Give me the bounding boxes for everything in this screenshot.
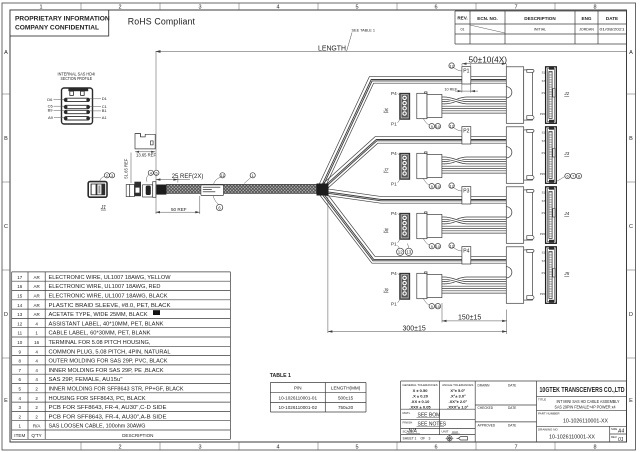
svg-text:1: 1 [415, 437, 417, 441]
svg-text:2: 2 [118, 5, 121, 11]
svg-text:P4: P4 [391, 211, 397, 216]
svg-text:.X°± 3.0°: .X°± 3.0° [450, 393, 466, 398]
svg-text:HOUSING FOR SFF8643, PC, BLACK: HOUSING FOR SFF8643, PC, BLACK [49, 396, 147, 402]
cable side view: connector mating plate [126, 185, 130, 197]
svg-text:01: 01 [461, 28, 465, 32]
svg-text:10-1026110001-02: 10-1026110001-02 [279, 405, 318, 410]
svg-text:A1: A1 [102, 115, 108, 120]
cable label on braid [201, 185, 224, 196]
svg-text:B: B [629, 136, 633, 142]
svg-text:DATE: DATE [606, 16, 618, 21]
svg-text:PLASTIC BRAID SLEEVE, #8.0, PE: PLASTIC BRAID SLEEVE, #8.0, PET, BLACK [49, 303, 172, 309]
svg-text:6: 6 [434, 445, 437, 451]
svg-text:10GTEK TRANSCEIVERS CO.,LTD: 10GTEK TRANSCEIVERS CO.,LTD [540, 385, 625, 394]
svg-text:5: 5 [355, 5, 358, 11]
svg-text:J3: J3 [563, 151, 569, 156]
svg-text:J8: J8 [383, 227, 389, 232]
svg-text:A: A [4, 50, 8, 56]
svg-text:PCB FOR SFF8643, FR-4, AU30",A: PCB FOR SFF8643, FR-4, AU30",A-B SIDE [49, 414, 168, 420]
strain relief strip [153, 182, 156, 198]
svg-text:3: 3 [198, 5, 201, 11]
svg-text:16: 16 [17, 284, 23, 289]
svg-text:D6: D6 [47, 97, 53, 102]
callout 11 cable label [214, 173, 226, 185]
svg-text:7: 7 [514, 445, 517, 451]
svg-text:PART NUMBER: PART NUMBER [538, 412, 560, 416]
svg-text:AR: AR [33, 312, 40, 317]
svg-text:ENG: ENG [582, 16, 592, 21]
drawn/checked/approved [478, 384, 517, 428]
connector body [130, 185, 135, 197]
svg-text:PROPRIETARY INFORMATION: PROPRIETARY INFORMATION [15, 16, 110, 23]
svg-text:150±15: 150±15 [458, 315, 481, 322]
svg-text:SAS 29P, FEMALE, AU15u": SAS 29P, FEMALE, AU15u" [49, 377, 123, 383]
svg-text:11: 11 [17, 331, 22, 336]
150±15 dimension [442, 303, 507, 334]
svg-text:10 REF: 10 REF [444, 87, 458, 91]
wire ribbon branch 3 [323, 188, 507, 196]
connector latch profile view [135, 134, 155, 149]
branch 4 assembly [398, 243, 557, 309]
svg-text:P4: P4 [391, 151, 397, 156]
svg-text:DRAWN: DRAWN [478, 384, 491, 388]
metal shell block [134, 182, 141, 197]
25 REF(2X) dimension [156, 174, 203, 183]
wire ribbon branch 4 [325, 191, 507, 257]
svg-text:B: B [4, 136, 8, 142]
svg-text:J1: J1 [100, 205, 107, 211]
zone numbers top [39, 5, 596, 11]
svg-text:LENGTH(MM): LENGTH(MM) [331, 386, 361, 391]
svg-text:.XXX°± 1.0°: .XXX°± 1.0° [447, 405, 469, 410]
svg-text:.XX°± 2.0°: .XX°± 2.0° [449, 399, 468, 404]
acetate tape over split (covers ribbon starts) [317, 184, 329, 196]
svg-text:X ± 0.50: X ± 0.50 [413, 388, 429, 393]
10 REF dimension branch1 [444, 84, 478, 93]
svg-text:4: 4 [276, 445, 279, 451]
TABLE 1 [270, 373, 366, 412]
svg-text:13: 13 [406, 250, 411, 255]
svg-text:TABLE 1: TABLE 1 [270, 373, 291, 379]
svg-text:Q'TY: Q'TY [31, 433, 41, 438]
zone letters left [4, 50, 8, 404]
svg-text:INITIAL: INITIAL [534, 28, 546, 32]
svg-text:1: 1 [252, 174, 254, 178]
svg-text:14: 14 [17, 303, 23, 308]
fan-out ribbons [319, 77, 506, 264]
branch 1 assembly [398, 63, 557, 129]
svg-text:DESCRIPTION: DESCRIPTION [122, 433, 153, 438]
svg-text:FINISH: FINISH [403, 421, 413, 425]
svg-text:P2: P2 [463, 129, 469, 135]
svg-text:J2: J2 [563, 91, 569, 96]
svg-text:13: 13 [17, 312, 23, 317]
branch 2 assembly [398, 123, 557, 189]
svg-text:SAS 29PIN FEMALE+4P POWER x4: SAS 29PIN FEMALE+4P POWER x4 [555, 405, 616, 410]
svg-text:3: 3 [198, 445, 201, 451]
BOM table [12, 272, 231, 439]
svg-text:LENGTH: LENGTH [318, 44, 346, 53]
svg-text:C: C [629, 224, 633, 230]
svg-text:D1: D1 [102, 96, 108, 101]
svg-text:5: 5 [155, 171, 157, 175]
svg-text:SECTION PROFILE: SECTION PROFILE [61, 76, 93, 81]
svg-text:P1: P1 [391, 181, 397, 186]
svg-text:SEE TABLE 1: SEE TABLE 1 [352, 28, 376, 32]
50±10(4X) dimension branch1 [462, 56, 507, 67]
svg-text:.XXX ± 0.05: .XXX ± 0.05 [409, 405, 431, 410]
rev row 01 INITIAL [470, 25, 505, 33]
svg-text:COMPANY CONFIDENTIAL: COMPANY CONFIDENTIAL [15, 25, 99, 32]
svg-text:C: C [4, 224, 8, 230]
callout 6 label leader [213, 196, 222, 211]
J1 connector front view [88, 182, 107, 198]
wire ribbon branch 1 [319, 77, 506, 185]
svg-text:500±15: 500±15 [338, 395, 354, 400]
svg-text:CABLE LABEL, 60*30MM, PET, BLA: CABLE LABEL, 60*30MM, PET, BLANK [49, 331, 152, 337]
svg-text:P1: P1 [391, 121, 397, 126]
svg-text:AR: AR [33, 294, 40, 299]
svg-text:DATE: DATE [508, 384, 516, 388]
51.65 REF vertical dim [124, 153, 132, 184]
svg-text:ANGLE TOLERANCES: ANGLE TOLERANCES [442, 383, 473, 387]
svg-text:JORDAN: JORDAN [579, 28, 594, 32]
svg-text:RoHS Compliant: RoHS Compliant [128, 16, 196, 26]
acetate tape band left [156, 185, 166, 195]
profile pin labels [47, 96, 107, 120]
svg-text:P1: P1 [463, 69, 469, 75]
svg-text:17: 17 [17, 275, 23, 280]
svg-text:6: 6 [566, 175, 568, 179]
svg-text:INNER MOLDING FOR SAS 29P, PE: INNER MOLDING FOR SAS 29P, PE ,BLACK [49, 368, 165, 374]
svg-text:P/N: P/N [294, 386, 302, 391]
svg-text:8: 8 [593, 445, 596, 451]
svg-text:3: 3 [429, 437, 431, 441]
svg-text:DESCRIPTION: DESCRIPTION [524, 16, 556, 21]
callouts 2,3 for J1 [100, 173, 115, 182]
svg-text:MATL: MATL [403, 411, 411, 415]
svg-text:10-1026110001-XX: 10-1026110001-XX [549, 435, 596, 441]
callout 1 braid [244, 173, 255, 184]
contact rows [64, 98, 89, 120]
svg-text:GENERAL TOLERANCES: GENERAL TOLERANCES [402, 383, 437, 387]
svg-text:DRAWING NO: DRAWING NO [538, 428, 558, 432]
svg-text:J6: J6 [383, 107, 389, 112]
wire ribbon branch 2 [320, 137, 507, 187]
callout 4,5 molding [146, 170, 159, 182]
svg-text:ASSISTANT LABEL, 40*10MM, PET,: ASSISTANT LABEL, 40*10MM, PET, BLANK [49, 321, 165, 327]
svg-text:PCB FOR SFF8643, FR-4, AU30",C: PCB FOR SFF8643, FR-4, AU30",C-D SIDE [49, 405, 168, 411]
svg-text:AR: AR [33, 284, 40, 289]
svg-text:10-1026110001-XX: 10-1026110001-XX [563, 419, 609, 425]
svg-text:8: 8 [578, 175, 580, 179]
svg-text:R/A: R/A [33, 424, 41, 429]
svg-text:INT MINI SAS HD CABLE ASSEMBLY: INT MINI SAS HD CABLE ASSEMBLY [557, 399, 620, 404]
braid sleeve [166, 184, 316, 193]
svg-text:50±10(4X): 50±10(4X) [469, 56, 508, 65]
svg-text:13: 13 [155, 311, 159, 315]
svg-text:P4: P4 [391, 271, 397, 276]
svg-text:REV.: REV. [457, 16, 467, 21]
branch text labels [463, 69, 469, 255]
svg-text:INNER MOLDING FOR SFF8643 STR,: INNER MOLDING FOR SFF8643 STR, PP+GF, BL… [49, 387, 185, 393]
svg-text:15: 15 [17, 294, 23, 299]
svg-text:SAS LOOSEN CABLE, 100ohm 30AWG: SAS LOOSEN CABLE, 100ohm 30AWG [49, 424, 146, 430]
svg-text:51.65 REF: 51.65 REF [124, 158, 129, 178]
svg-text:2: 2 [118, 445, 121, 451]
svg-text:ELECTRONIC WIRE, UL1007 18AWG,: ELECTRONIC WIRE, UL1007 18AWG, BLACK [49, 294, 169, 300]
svg-text:AR: AR [33, 303, 40, 308]
molding block [143, 185, 153, 197]
svg-text:J7: J7 [383, 167, 389, 172]
svg-text:TERMINAL FOR 5.08 PITCH HOUSIN: TERMINAL FOR 5.08 PITCH HOUSING, [49, 340, 151, 346]
svg-text:D: D [4, 312, 8, 318]
svg-text:E: E [4, 398, 8, 404]
svg-text:B1: B1 [102, 108, 108, 113]
svg-text:.X ± 0.20: .X ± 0.20 [412, 393, 429, 398]
svg-text:OF: OF [421, 437, 426, 441]
svg-text:P1: P1 [391, 241, 397, 246]
svg-text:SHEET: SHEET [403, 437, 414, 441]
title block [401, 381, 627, 443]
svg-text:25 REF(2X): 25 REF(2X) [172, 174, 204, 180]
svg-text:5: 5 [355, 445, 358, 451]
svg-text:COMMON PLUG, 5.08 PITCH, 4PIN,: COMMON PLUG, 5.08 PITCH, 4PIN, NATURAL [49, 349, 171, 355]
svg-text:3: 3 [111, 174, 113, 178]
svg-text:CHECKED: CHECKED [478, 406, 494, 410]
svg-text:ELECTRONIC WIRE, UL1007 18AWG,: ELECTRONIC WIRE, UL1007 18AWG, RED [49, 284, 161, 290]
svg-text:10: 10 [17, 340, 23, 345]
svg-text:6: 6 [434, 5, 437, 11]
svg-text:ACETATE TYPE, WIDE 25MM, BLACK: ACETATE TYPE, WIDE 25MM, BLACK [49, 312, 149, 318]
svg-text:01/08/2021: 01/08/2021 [600, 28, 625, 32]
svg-text:J5: J5 [563, 271, 569, 276]
svg-text:P4: P4 [391, 91, 397, 96]
svg-text:10-1026110001-01: 10-1026110001-01 [279, 395, 318, 400]
LENGTH dimension [156, 28, 627, 182]
svg-text:SIZE: SIZE [611, 427, 617, 431]
svg-text:E: E [629, 398, 633, 404]
svg-text:REV.: REV. [611, 435, 617, 439]
callouts 12,13 at J8 [397, 244, 413, 256]
svg-text:P4: P4 [463, 249, 469, 255]
svg-text:2: 2 [106, 174, 108, 178]
svg-text:A9: A9 [48, 115, 54, 120]
branch 3 assembly [398, 183, 557, 249]
svg-text:50 REF: 50 REF [171, 207, 187, 212]
svg-text:DATE: DATE [508, 424, 516, 428]
13.65 REF dim [135, 151, 155, 153]
svg-text:01: 01 [618, 437, 624, 443]
svg-text:750±20: 750±20 [338, 405, 354, 410]
svg-text:UNIT: UNIT [442, 429, 449, 433]
zone numbers bottom [118, 445, 596, 451]
svg-text:16: 16 [34, 340, 40, 345]
svg-text:7: 7 [514, 5, 517, 11]
svg-text:X°± 5.0°: X°± 5.0° [450, 388, 465, 393]
50 REF dimension [156, 182, 200, 214]
svg-text:J9: J9 [383, 287, 389, 292]
svg-text:12: 12 [17, 321, 23, 326]
projection symbol [446, 435, 468, 442]
svg-text:11: 11 [221, 174, 225, 178]
svg-text:A: A [629, 50, 633, 56]
300±15 dimension [328, 197, 507, 334]
svg-text:J4: J4 [563, 211, 569, 216]
svg-text:D: D [629, 312, 633, 318]
svg-text:P1: P1 [391, 301, 397, 306]
svg-text:4: 4 [150, 171, 152, 175]
svg-text:4: 4 [276, 5, 279, 11]
zone letters right [629, 50, 633, 404]
svg-text:ITEM: ITEM [14, 433, 25, 438]
svg-text:ECN. NO.: ECN. NO. [477, 16, 497, 21]
svg-text:P3: P3 [463, 189, 469, 195]
callouts 6,7,8 at J3 [557, 173, 582, 181]
section profile connector body [47, 88, 107, 124]
svg-text:A4: A4 [617, 429, 624, 435]
svg-text:ELECTRONIC WIRE, UL1007 18AWG,: ELECTRONIC WIRE, UL1007 18AWG, YELLOW [49, 275, 171, 281]
svg-text:8: 8 [593, 5, 596, 11]
svg-text:OUTER MOLDING FOR SAS 29P, PVC: OUTER MOLDING FOR SAS 29P, PVC, BLACK [49, 359, 169, 365]
proprietary information box [10, 10, 109, 36]
svg-text:DATE: DATE [508, 406, 516, 410]
svg-text:B9: B9 [48, 108, 54, 113]
svg-text:12: 12 [398, 250, 403, 255]
svg-text:AR: AR [33, 275, 40, 280]
revision table [455, 11, 627, 44]
svg-text:13.65 REF: 13.65 REF [136, 153, 156, 158]
svg-text:7: 7 [572, 175, 574, 179]
svg-text:.XX ± 0.10: .XX ± 0.10 [411, 399, 430, 404]
tolerance box [401, 381, 476, 435]
svg-text:TITLE: TITLE [538, 398, 546, 402]
svg-text:APPROVED: APPROVED [478, 424, 496, 428]
